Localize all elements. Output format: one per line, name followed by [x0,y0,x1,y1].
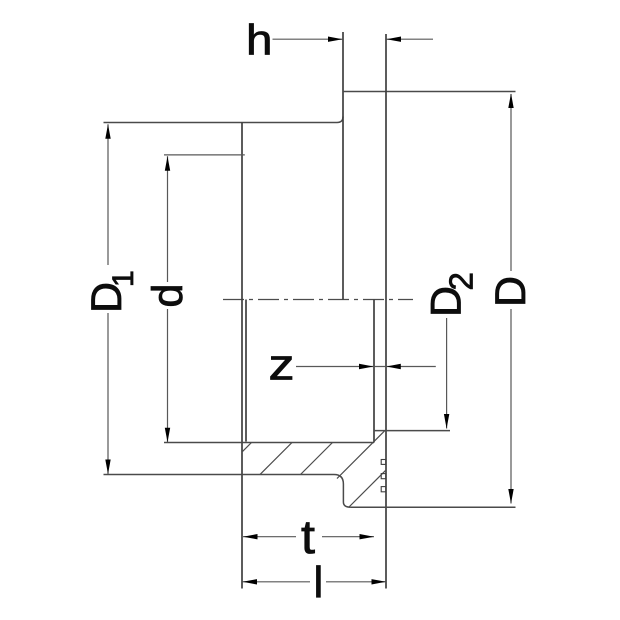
hatching section lines [174,410,446,520]
dimension d line [167,156,169,282]
serration square 2 [381,474,386,479]
dimension h line right [387,38,434,40]
svg-text:z: z [269,341,295,390]
dimension D2 line [446,318,448,429]
wire left end face vertical [241,123,243,589]
serration square 3 [381,487,386,492]
svg-text:l: l [314,558,324,607]
dimension D1 line [107,124,109,265]
wire socket top edge with D1 extension and fillet [104,117,344,123]
dimension z line [296,366,436,368]
dimension t line [243,536,296,538]
wire right end face vertical [385,34,387,589]
wire flange left face vertical [342,32,344,300]
dimension D line [510,94,512,271]
wire flange top edge with D extension [343,91,516,93]
svg-text:2: 2 [443,272,480,290]
wire through-bore edge with D2 extension [374,430,450,432]
dimension l line [243,581,311,583]
centerline [223,299,413,301]
svg-text:D: D [487,276,535,307]
wire socket bottom face vertical [373,300,375,443]
wire bore bottom edge with d extension [164,442,374,444]
wire flange bottom edge with D extension [351,506,516,508]
svg-text:1: 1 [107,270,140,287]
serration square 1 [381,460,386,465]
svg-text:t: t [301,510,315,563]
svg-text:h: h [246,17,273,65]
svg-text:d: d [144,284,192,308]
wire socket mouth chamfer line [245,300,247,442]
dimension d extension top [164,154,245,156]
dimension h line left [273,38,343,40]
wire socket bottom edge with D1 extension and step fillets [104,475,351,508]
